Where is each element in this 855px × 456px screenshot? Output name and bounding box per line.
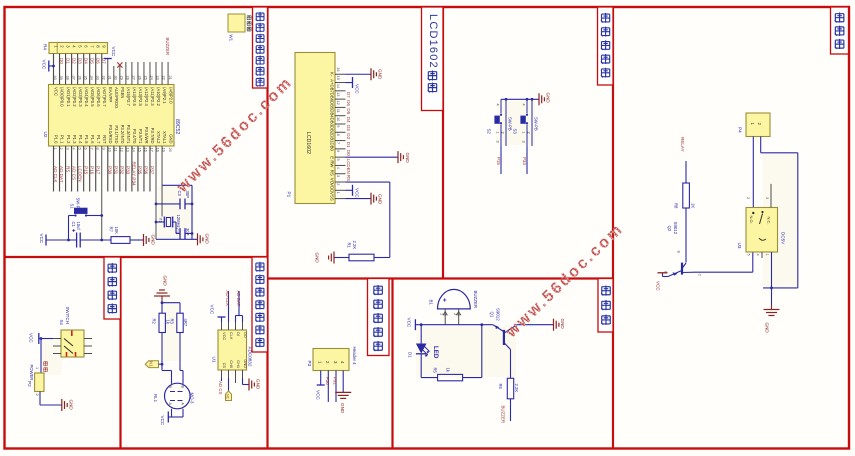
connector P4 bbox=[738, 113, 771, 137]
svg-text:CH1: CH1 bbox=[236, 360, 241, 368]
svg-text:P3.4/T0: P3.4/T0 bbox=[132, 129, 137, 144]
svg-text:12: 12 bbox=[336, 100, 341, 104]
ground (U1) bbox=[243, 378, 261, 391]
svg-text:GND: GND bbox=[151, 235, 156, 246]
svg-text:GND: GND bbox=[765, 323, 770, 334]
svg-text:P35: P35 bbox=[138, 166, 143, 175]
svg-text:DB6: DB6 bbox=[330, 93, 335, 102]
section title: MCU minimal system (7 CJK chars) bbox=[253, 7, 268, 88]
designator P1 bbox=[287, 192, 292, 198]
svg-text:PSEN: PSEN bbox=[120, 87, 125, 98]
svg-text:B1: B1 bbox=[429, 300, 434, 306]
wire R2 to N1 node bbox=[161, 333, 164, 366]
background tint relay loop bbox=[763, 154, 798, 287]
svg-text:1: 1 bbox=[496, 132, 500, 134]
net labels AD CLK / AD DAT / RS / AD CS / LCDEN / P15-P17 / P30-P37 / RELAY bbox=[53, 162, 154, 187]
svg-text:R1: R1 bbox=[347, 243, 352, 249]
svg-text:S1: S1 bbox=[70, 204, 75, 210]
svg-text:VCC: VCC bbox=[42, 60, 47, 70]
transistor Q1 S9012 (PNP) bbox=[490, 308, 518, 350]
XTAL2 wire bbox=[155, 146, 157, 239]
net label dian-yuan (2 CJK red) bbox=[43, 361, 47, 372]
svg-text:GND: GND bbox=[378, 194, 383, 205]
svg-text:VDD: VDD bbox=[330, 183, 335, 192]
svg-text:4R7: 4R7 bbox=[183, 319, 188, 327]
svg-text:D5: D5 bbox=[89, 58, 94, 64]
svg-text:AD CLK: AD CLK bbox=[53, 166, 58, 184]
svg-text:P3: P3 bbox=[307, 361, 312, 367]
svg-text:N.C.: N.C. bbox=[766, 217, 771, 225]
section divider vertical x=443 (LCD / buttons) bbox=[442, 7, 444, 279]
svg-text:(A8)P2.0: (A8)P2.0 bbox=[168, 87, 173, 104]
section divider vertical x=120.5 (power / sensor) bbox=[119, 257, 121, 449]
net AD DAT on U1 (DI+DO tied) bbox=[236, 291, 243, 323]
svg-text:GND: GND bbox=[546, 93, 551, 104]
svg-text:P2: P2 bbox=[27, 381, 32, 387]
pushbutton S3 SW-PB bbox=[513, 99, 539, 146]
pushbutton S1 SW-PB bbox=[67, 198, 102, 242]
svg-text:RW: RW bbox=[330, 160, 335, 168]
P3 pin3 net P31 bbox=[333, 371, 338, 403]
svg-text:S9012: S9012 bbox=[673, 222, 678, 235]
svg-text:R3: R3 bbox=[169, 319, 174, 325]
W1 text wan-yong-ban (3 CJK) bbox=[247, 15, 251, 31]
svg-text:VSS: VSS bbox=[330, 192, 335, 201]
section title: button indicator lights (5 CJK) bbox=[598, 7, 614, 85]
capacitor C1 10uf (electrolytic) bbox=[71, 222, 111, 248]
svg-text:SW-PB: SW-PB bbox=[534, 117, 539, 131]
svg-text:GND: GND bbox=[168, 134, 173, 143]
U2 pin numbers 1..20 below body bbox=[53, 148, 173, 153]
VCC power port (relay, dark red) bbox=[656, 273, 669, 292]
svg-text:D1: D1 bbox=[408, 352, 413, 358]
background tint buzzer loop bbox=[416, 326, 516, 377]
section divider vertical x=613 (relay column) bbox=[612, 7, 614, 449]
svg-text:P30: P30 bbox=[107, 166, 112, 175]
svg-text:Q2: Q2 bbox=[667, 226, 672, 232]
svg-text:P1.2: P1.2 bbox=[66, 135, 71, 144]
svg-text:13: 13 bbox=[336, 92, 341, 96]
VCC on A+ pin15 bbox=[346, 77, 360, 94]
ground (buttons) bbox=[539, 93, 551, 106]
designator U2 bbox=[43, 132, 48, 138]
svg-text:BUZZER: BUZZER bbox=[501, 406, 506, 424]
transistor Q2 S9012 (PNP) bbox=[664, 222, 702, 277]
svg-text:D2: D2 bbox=[346, 133, 351, 139]
svg-text:(A10)P2.2: (A10)P2.2 bbox=[156, 87, 161, 107]
svg-text:AD CS: AD CS bbox=[218, 381, 223, 394]
svg-text:D5: D5 bbox=[346, 108, 351, 114]
wire to net P15 bbox=[496, 146, 501, 174]
U1 top pin stubs bbox=[222, 322, 243, 378]
svg-text:GND: GND bbox=[378, 69, 383, 80]
resistor R5 1k bbox=[421, 325, 482, 381]
svg-text:RS: RS bbox=[330, 170, 335, 176]
R4 pin numbers 1..9 bbox=[54, 45, 107, 48]
svg-text:(AD1)P0.1: (AD1)P0.1 bbox=[66, 87, 71, 107]
svg-text:CLK: CLK bbox=[229, 332, 234, 340]
svg-text:GND: GND bbox=[69, 400, 74, 411]
LED D1 bbox=[408, 325, 430, 378]
svg-text:5: 5 bbox=[336, 158, 341, 160]
svg-text:P3.2/INT0: P3.2/INT0 bbox=[120, 125, 125, 145]
svg-text:DB7: DB7 bbox=[330, 84, 335, 93]
section title: power interface (4 CJK) bbox=[104, 257, 121, 319]
VCC power port (reset circuit) bbox=[39, 234, 76, 246]
svg-text:VCC: VCC bbox=[315, 390, 320, 400]
ground on K- pin16 bbox=[346, 68, 383, 80]
ground (sensor top) bbox=[154, 276, 170, 303]
svg-text:K-: K- bbox=[330, 72, 335, 77]
P3 pin2 net P30 bbox=[325, 371, 330, 403]
background tint buttons bbox=[497, 101, 535, 145]
svg-text:1: 1 bbox=[765, 254, 769, 256]
section title: LCD1602 display bbox=[422, 7, 444, 111]
net labels D0..D7 on LCD data pins bbox=[346, 92, 351, 156]
ADC chip U1 ADC0832 body bbox=[211, 330, 252, 370]
svg-text:10K: 10K bbox=[114, 227, 119, 235]
svg-text:D0: D0 bbox=[59, 58, 64, 64]
background tint power area bbox=[41, 339, 62, 375]
svg-text:3: 3 bbox=[496, 141, 500, 143]
svg-text:DO: DO bbox=[243, 332, 248, 338]
svg-text:CS: CS bbox=[222, 363, 227, 369]
svg-text:DB2: DB2 bbox=[330, 126, 335, 135]
svg-text:AD CLK: AD CLK bbox=[225, 291, 230, 307]
svg-text:VCC: VCC bbox=[407, 318, 412, 328]
svg-text:VCC: VCC bbox=[54, 87, 59, 96]
wire P4 pin1 to relay pin2 bbox=[752, 137, 754, 208]
svg-text:P17: P17 bbox=[95, 166, 100, 175]
svg-text:VCC: VCC bbox=[210, 305, 215, 315]
svg-text:C: C bbox=[698, 274, 702, 277]
svg-text:MQ-3: MQ-3 bbox=[189, 393, 194, 405]
svg-text:2.2K: 2.2K bbox=[352, 241, 357, 250]
svg-text:GND: GND bbox=[205, 234, 210, 245]
resistor R6 2.2K bbox=[498, 350, 519, 422]
value LCD1602 bbox=[305, 132, 311, 154]
MQ-3 bottom pins to VCC bbox=[168, 409, 183, 417]
svg-text:DC5V: DC5V bbox=[781, 232, 786, 245]
svg-text:VCC: VCC bbox=[111, 47, 116, 57]
svg-text:VCC: VCC bbox=[29, 333, 34, 343]
svg-text:P15: P15 bbox=[83, 166, 88, 175]
svg-text:R7: R7 bbox=[109, 227, 114, 233]
svg-text:VCC: VCC bbox=[656, 281, 661, 291]
VCC power port (left of R4) bbox=[42, 60, 55, 72]
svg-text:6: 6 bbox=[336, 150, 341, 152]
svg-text:3: 3 bbox=[765, 197, 769, 199]
ground (relay) bbox=[764, 305, 780, 334]
section divider horizontal y=278.5 (bottom of LCD/buttons) bbox=[268, 277, 614, 279]
relay pin4 stub bbox=[761, 252, 763, 258]
svg-text:2: 2 bbox=[453, 313, 457, 315]
common wire buttons to ground bbox=[501, 98, 539, 101]
svg-text:LCDEN: LCDEN bbox=[77, 166, 82, 182]
svg-text:XTAL1: XTAL1 bbox=[162, 131, 167, 144]
connector P3 Header 4 body bbox=[307, 347, 357, 371]
svg-text:DB3: DB3 bbox=[330, 118, 335, 127]
net AD CLK on U1 bbox=[225, 291, 230, 323]
svg-text:N1: N1 bbox=[149, 361, 154, 367]
U1 pin names bbox=[222, 332, 248, 369]
svg-text:AD DAT: AD DAT bbox=[236, 291, 241, 307]
section title: relay (3 CJK) bbox=[831, 7, 849, 54]
svg-text:W1: W1 bbox=[229, 35, 234, 42]
P1 pin names inside body bbox=[330, 72, 335, 201]
svg-text:D7: D7 bbox=[346, 92, 351, 98]
pull-up bus wires R4 to U2 pins 40..32 bbox=[54, 54, 102, 85]
svg-text:P1.7: P1.7 bbox=[96, 135, 101, 144]
svg-text:D2: D2 bbox=[71, 58, 76, 64]
value 89C52 bbox=[174, 119, 180, 134]
svg-text:(A11)P2.3: (A11)P2.3 bbox=[150, 87, 155, 106]
svg-text:12MHz: 12MHz bbox=[176, 215, 181, 228]
net tag N1 on CH0 bbox=[226, 378, 232, 401]
wire to net P33 bbox=[522, 146, 527, 174]
svg-text:BUZZER: BUZZER bbox=[473, 291, 478, 309]
svg-text:RELAY: RELAY bbox=[680, 137, 685, 152]
svg-text:7: 7 bbox=[336, 142, 341, 144]
svg-text:2: 2 bbox=[527, 132, 531, 134]
svg-text:VCC: VCC bbox=[39, 234, 44, 244]
P3 pin numbers bbox=[318, 361, 346, 364]
svg-text:P1.1: P1.1 bbox=[60, 135, 65, 144]
svg-text:CH0: CH0 bbox=[229, 360, 234, 369]
svg-text:P31: P31 bbox=[114, 166, 119, 175]
section divider vertical x=392.5 (download / buzzer) bbox=[391, 279, 393, 449]
svg-text:BUZZER: BUZZER bbox=[165, 38, 170, 56]
net tag N1 bbox=[145, 361, 162, 368]
svg-text:SW-PB: SW-PB bbox=[508, 117, 513, 131]
U2 bottom port wires with net labels bbox=[54, 146, 150, 192]
resistor R1 2.2K bbox=[334, 241, 374, 261]
XTAL1 wire with jog to right rail bbox=[162, 146, 192, 239]
connector P2 POWER bbox=[27, 365, 44, 396]
svg-text:XTAL2: XTAL2 bbox=[156, 131, 161, 144]
svg-text:N.O.: N.O. bbox=[749, 216, 754, 224]
svg-text:P3.5/T1: P3.5/T1 bbox=[138, 129, 143, 144]
ground (R1) bbox=[315, 252, 335, 264]
P1 pin numbers bbox=[336, 67, 341, 194]
svg-text:ALE/PROG: ALE/PROG bbox=[114, 87, 119, 108]
svg-text:E: E bbox=[330, 156, 335, 159]
svg-text:D4: D4 bbox=[346, 117, 351, 123]
wire Q1 emitter to ground bbox=[517, 324, 554, 326]
svg-text:10uf: 10uf bbox=[76, 222, 81, 231]
net labels D0..D7 on P0 bus bbox=[59, 58, 106, 64]
svg-text:D3: D3 bbox=[346, 125, 351, 131]
wire VCC rail to P2 pin1 bbox=[40, 339, 42, 374]
svg-text:VO: VO bbox=[330, 178, 335, 185]
svg-text:2.2K: 2.2K bbox=[514, 384, 519, 393]
no-connect X on PSEN pin bbox=[117, 62, 122, 84]
svg-text:D6: D6 bbox=[346, 100, 351, 106]
svg-text:P15: P15 bbox=[496, 157, 501, 165]
svg-text:EA/VPP: EA/VPP bbox=[108, 87, 113, 102]
svg-text:P3.6/WR: P3.6/WR bbox=[144, 127, 149, 144]
P2 port stub wires (pins 28..21) bbox=[114, 62, 168, 85]
svg-text:VCC: VCC bbox=[222, 332, 227, 340]
svg-text:R8: R8 bbox=[674, 203, 679, 209]
svg-text:(AD7)P0.7: (AD7)P0.7 bbox=[102, 87, 107, 107]
svg-text:D1: D1 bbox=[65, 58, 70, 64]
svg-text:P1.6: P1.6 bbox=[90, 135, 95, 144]
wire P4 pin2 right rail down bbox=[761, 137, 798, 288]
svg-text:S2: S2 bbox=[487, 129, 492, 135]
P3 pin1 to VCC bbox=[315, 371, 324, 401]
svg-text:(A9)P2.1: (A9)P2.1 bbox=[162, 87, 167, 104]
svg-text:1: 1 bbox=[522, 132, 526, 134]
svg-text:Q1: Q1 bbox=[490, 312, 495, 318]
background tint crystal area bbox=[158, 186, 194, 238]
svg-text:1: 1 bbox=[35, 367, 39, 369]
ground (power section) bbox=[62, 399, 74, 411]
svg-text:LCD1602: LCD1602 bbox=[427, 14, 439, 69]
svg-text:4: 4 bbox=[522, 104, 526, 106]
svg-text:P32: P32 bbox=[120, 166, 125, 175]
svg-text:RS: RS bbox=[346, 175, 351, 181]
VCC power port (buzzer) bbox=[407, 318, 416, 331]
capacitor C2 30P bbox=[175, 228, 194, 239]
svg-text:U3: U3 bbox=[737, 243, 742, 249]
ground on VSS pin1 bbox=[346, 193, 383, 205]
buzzer B1 bbox=[429, 289, 478, 309]
svg-text:VCC: VCC bbox=[355, 84, 360, 94]
svg-text:Y1: Y1 bbox=[158, 218, 163, 224]
svg-text:VCC: VCC bbox=[160, 416, 165, 426]
svg-text:P1.3: P1.3 bbox=[72, 135, 77, 144]
svg-text:C2: C2 bbox=[175, 228, 180, 234]
svg-text:(AD5)P0.5: (AD5)P0.5 bbox=[90, 87, 95, 107]
relay U3 DC5V body bbox=[737, 208, 786, 253]
svg-text:SWITCH: SWITCH bbox=[65, 307, 70, 324]
svg-text:(A14)P2.6: (A14)P2.6 bbox=[132, 87, 137, 107]
net AD CS on U1 bbox=[218, 378, 223, 394]
resistor R3 4R7 bbox=[169, 313, 188, 332]
net label BUZZER (bottom) bbox=[501, 406, 506, 424]
svg-text:Header 4: Header 4 bbox=[352, 347, 357, 366]
VCC power port (U1) bbox=[210, 305, 226, 323]
net label RS on pin4 bbox=[346, 175, 351, 181]
switch S4 body bbox=[59, 307, 84, 358]
B1 pins 1,2 bbox=[440, 309, 461, 325]
MQ-3 gas sensor RL1 bbox=[153, 383, 195, 409]
VCC power port (power section) bbox=[29, 333, 54, 344]
wire VO pin3 to R1 bbox=[346, 182, 390, 257]
svg-text:P1.4: P1.4 bbox=[78, 135, 83, 144]
svg-text:GND: GND bbox=[243, 359, 248, 368]
svg-text:R4: R4 bbox=[43, 44, 48, 50]
resistor R8 1K bbox=[674, 183, 696, 263]
VCC power port (sensor) bbox=[160, 412, 168, 426]
watermark www.56doc.com (center) bbox=[502, 220, 627, 341]
svg-text:D3: D3 bbox=[77, 58, 82, 64]
svg-text:3: 3 bbox=[522, 141, 526, 143]
svg-text:(AD6)P0.6: (AD6)P0.6 bbox=[96, 87, 101, 107]
crystal Y1 12MHz bbox=[155, 215, 181, 234]
svg-text:2: 2 bbox=[336, 183, 341, 185]
svg-text:9: 9 bbox=[336, 125, 341, 127]
RST pin wire down to reset circuit bbox=[100, 146, 103, 241]
section divider horizontal y=257 (bottom of MCU) bbox=[5, 256, 268, 258]
svg-text:R2: R2 bbox=[151, 319, 156, 325]
ground (reset circuit) bbox=[144, 234, 156, 246]
watermark www.56doc.com (upper left) bbox=[173, 74, 296, 197]
svg-text:P3.0/RXD: P3.0/RXD bbox=[108, 125, 113, 144]
svg-text:LED: LED bbox=[432, 346, 439, 359]
svg-text:(AD3)P0.3: (AD3)P0.3 bbox=[78, 87, 83, 107]
svg-text:1K: 1K bbox=[691, 203, 696, 208]
R4 designator bbox=[43, 44, 48, 50]
resistor R2 1k bbox=[151, 313, 170, 332]
svg-text:D4: D4 bbox=[83, 58, 88, 64]
svg-text:DB4: DB4 bbox=[330, 109, 335, 118]
svg-text:RELAY P34: RELAY P34 bbox=[132, 162, 137, 187]
svg-text:AD CS: AD CS bbox=[71, 166, 76, 180]
svg-text:RS: RS bbox=[65, 166, 70, 172]
svg-text:5: 5 bbox=[747, 254, 751, 256]
svg-text:GND: GND bbox=[163, 276, 168, 287]
svg-text:P33: P33 bbox=[126, 166, 131, 175]
svg-text:4: 4 bbox=[496, 104, 500, 106]
svg-text:VCC: VCC bbox=[355, 188, 360, 198]
svg-text:GND: GND bbox=[560, 319, 565, 330]
svg-text:S4: S4 bbox=[59, 320, 64, 326]
wire R3 to MQ-3 bbox=[180, 333, 183, 384]
svg-text:P3.1/TXD: P3.1/TXD bbox=[114, 125, 119, 143]
resistor R7 10K bbox=[109, 227, 144, 244]
svg-text:(A13)P2.5: (A13)P2.5 bbox=[138, 87, 143, 107]
relay pin3 stub bbox=[770, 184, 772, 208]
net label BUZZER on P2.0 bbox=[165, 38, 170, 56]
section divider vertical x=267 bbox=[266, 7, 268, 449]
svg-text:30P: 30P bbox=[185, 228, 190, 236]
svg-text:P36: P36 bbox=[144, 166, 149, 175]
svg-text:POWER: POWER bbox=[29, 365, 34, 381]
svg-text:8: 8 bbox=[336, 134, 341, 136]
svg-text:(AD4)P0.4: (AD4)P0.4 bbox=[84, 87, 89, 107]
svg-text:AD DAT: AD DAT bbox=[59, 166, 64, 183]
section title: buzzer (3 CJK) bbox=[598, 279, 613, 333]
svg-text:DI: DI bbox=[236, 332, 241, 336]
resistor network R4 body bbox=[49, 43, 108, 54]
svg-text:11: 11 bbox=[336, 109, 341, 113]
svg-text:SW-PB: SW-PB bbox=[76, 198, 81, 212]
capacitor C3 30P bbox=[155, 191, 194, 210]
VCC rail wire bbox=[415, 323, 492, 326]
svg-text:GND: GND bbox=[315, 253, 320, 264]
op-amp: none; MCU chip U2 89C52 body bbox=[49, 85, 175, 147]
svg-text:P37: P37 bbox=[150, 166, 155, 175]
U2 pin names (top row inside body) bbox=[54, 87, 174, 108]
svg-text:P31: P31 bbox=[333, 377, 338, 385]
svg-text:4: 4 bbox=[756, 254, 760, 256]
wire gnd to R2/R3 bbox=[161, 301, 180, 313]
svg-text:R6: R6 bbox=[498, 384, 503, 390]
svg-text:P16: P16 bbox=[89, 166, 94, 175]
svg-text:2: 2 bbox=[35, 394, 39, 396]
wildcard board W1 bbox=[228, 14, 245, 42]
svg-text:15: 15 bbox=[336, 76, 341, 80]
P3 pin4 to ground bbox=[335, 371, 351, 414]
P1 pin stubs bbox=[335, 74, 346, 198]
svg-text:P1.0: P1.0 bbox=[54, 135, 59, 144]
svg-text:(AD2)P0.2: (AD2)P0.2 bbox=[72, 87, 77, 107]
svg-text:P3.7/RD: P3.7/RD bbox=[150, 128, 155, 144]
ground (crystal) bbox=[156, 233, 209, 245]
VCC on VDD pin2 bbox=[346, 185, 360, 199]
